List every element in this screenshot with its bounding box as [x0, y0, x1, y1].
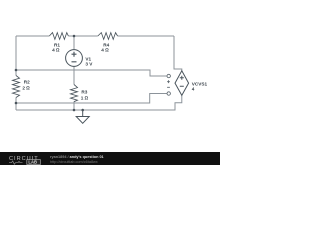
svg-text:http://circuitlab.com/c6ta8wx: http://circuitlab.com/c6ta8wx	[50, 160, 98, 164]
svg-text:R3: R3	[81, 89, 87, 94]
svg-text:4: 4	[192, 87, 195, 92]
svg-text:1 Ω: 1 Ω	[81, 96, 89, 101]
svg-text:4 Ω: 4 Ω	[101, 48, 109, 53]
svg-text:LAB: LAB	[28, 159, 37, 164]
svg-text:ryan1894 / andy's question 01: ryan1894 / andy's question 01	[50, 155, 104, 159]
svg-text:3 V: 3 V	[85, 62, 93, 67]
svg-text:2 Ω: 2 Ω	[22, 86, 30, 91]
svg-text:R2: R2	[24, 80, 30, 85]
svg-text:4 Ω: 4 Ω	[52, 48, 60, 53]
